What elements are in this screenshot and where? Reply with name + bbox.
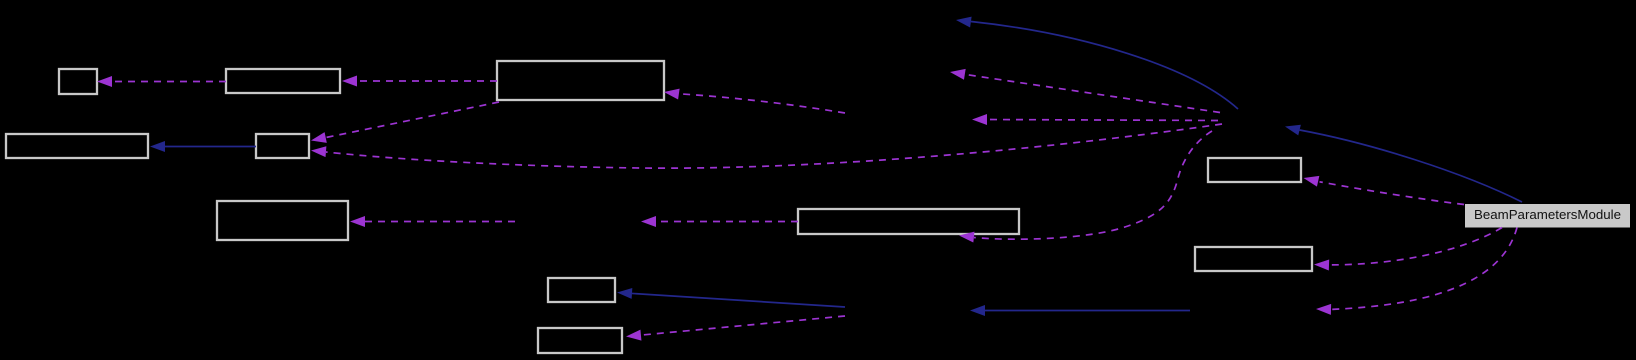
arrowhead T1 — [949, 67, 966, 80]
edge BPM->X3 (dashed) — [1331, 228, 1517, 310]
arrowhead at L — [625, 330, 641, 342]
node A (top-left small box) — [59, 69, 97, 94]
edge T3->F (dashed horizontal) — [365, 221, 515, 223]
edge C->E (dashed diagonal) — [326, 102, 499, 138]
node I — [1195, 247, 1312, 271]
arrowhead at B — [342, 76, 357, 87]
node B — [226, 69, 340, 93]
node BeamParametersModule — [1465, 204, 1630, 228]
edge X1->T1 (dashed up-left) — [964, 74, 1220, 112]
edge T2->C (dashed) — [679, 94, 845, 113]
arrowhead at H — [1302, 173, 1319, 187]
node H — [1208, 158, 1301, 182]
arrowhead X3 — [1316, 304, 1331, 315]
arrowhead at C right — [663, 87, 679, 100]
edge X2->L (dashed) — [641, 316, 845, 335]
edge BPM->I (dashed) — [1329, 228, 1502, 265]
node E — [256, 134, 309, 158]
edge G->T3 (dashed horizontal) — [656, 221, 798, 223]
edge X1->T2 (dashed horizontal) — [987, 120, 1218, 121]
arrowhead at E lower — [311, 145, 327, 157]
edge X2->K (navy) — [632, 293, 845, 307]
edge X1->G (dashed curve) — [974, 131, 1212, 239]
arrowhead at D — [150, 141, 165, 152]
node F (two-line box) — [217, 201, 348, 240]
arrowhead T2 — [972, 114, 987, 125]
node D — [6, 134, 148, 158]
node K — [548, 278, 615, 302]
edge E->D (navy solid) — [165, 146, 256, 148]
edge X3->X2 (navy horizontal) — [985, 310, 1190, 312]
arrowhead at X1 — [1284, 121, 1301, 135]
svg-text:BeamParametersModule: BeamParametersModule — [1474, 207, 1621, 222]
edge X1->E (long sagging dashed) — [326, 124, 1222, 168]
arrowhead T0 — [955, 15, 971, 28]
arrowhead at E upper — [310, 132, 327, 146]
edge B->A (dashed) — [113, 81, 226, 83]
edge X1->T0 (navy curve to top) — [971, 22, 1238, 110]
node G — [798, 209, 1019, 234]
node C (two-line box) — [497, 61, 664, 100]
edge BPM->X1 (navy) — [1300, 130, 1522, 202]
arrowhead at F — [350, 216, 365, 227]
edge C->B (dashed) — [358, 80, 497, 82]
arrowhead at K — [617, 287, 633, 299]
arrowhead at G bottom — [958, 230, 974, 243]
arrowhead T3 — [641, 216, 656, 227]
node L — [538, 328, 622, 353]
arrowhead X2 — [970, 305, 985, 316]
arrowhead at I — [1314, 259, 1329, 271]
edge BPM->H (dashed) — [1320, 182, 1465, 205]
arrowhead at A — [97, 76, 112, 87]
